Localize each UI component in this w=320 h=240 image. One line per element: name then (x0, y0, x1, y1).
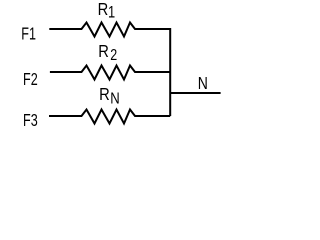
svg-text:N: N (110, 90, 119, 107)
svg-text:1: 1 (108, 4, 115, 22)
svg-text:F3: F3 (23, 111, 38, 131)
svg-text:R: R (98, 42, 109, 61)
svg-text:N: N (198, 74, 208, 93)
svg-text:2: 2 (110, 47, 117, 65)
svg-text:F2: F2 (23, 70, 38, 90)
svg-text:R: R (99, 85, 110, 104)
svg-text:F1: F1 (21, 24, 36, 44)
svg-text:R: R (98, 0, 109, 19)
